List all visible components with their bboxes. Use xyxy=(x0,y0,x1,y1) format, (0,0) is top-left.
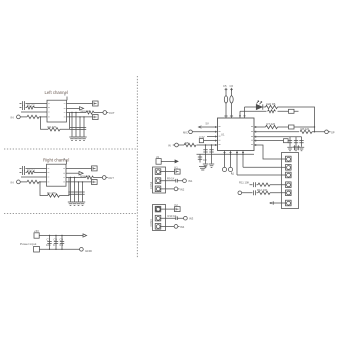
svg-text:R9 1K: R9 1K xyxy=(167,177,175,181)
svg-text:5V: 5V xyxy=(206,122,209,126)
svg-text:3.3V: 3.3V xyxy=(199,135,205,139)
svg-text:OUT: OUT xyxy=(109,111,115,115)
svg-text:R2 47K: R2 47K xyxy=(48,125,57,129)
svg-text:J3: J3 xyxy=(156,155,159,159)
svg-text:Power input: Power input xyxy=(20,242,36,246)
svg-text:1: 1 xyxy=(233,172,235,176)
svg-text:IN2: IN2 xyxy=(180,187,185,191)
svg-text:R1 C2: R1 C2 xyxy=(27,103,35,107)
svg-text:R11 10K: R11 10K xyxy=(239,180,249,184)
svg-text:IN: IN xyxy=(168,144,171,148)
svg-text:LED R6: LED R6 xyxy=(266,102,276,106)
svg-text:IN: IN xyxy=(11,180,14,184)
svg-text:CON3: CON3 xyxy=(149,181,153,189)
svg-text:IN4: IN4 xyxy=(180,225,185,229)
svg-text:+5V: +5V xyxy=(34,229,39,233)
svg-text:10u: 10u xyxy=(46,243,51,247)
svg-text:R8 220: R8 220 xyxy=(301,127,310,131)
svg-text:C3: C3 xyxy=(203,158,207,162)
svg-text:MIC: MIC xyxy=(183,130,188,134)
svg-text:C8: C8 xyxy=(54,238,58,242)
svg-text:C7: C7 xyxy=(47,238,51,242)
svg-text:SP: SP xyxy=(331,131,335,135)
svg-text:IN3: IN3 xyxy=(189,217,194,221)
svg-text:0.1: 0.1 xyxy=(60,243,64,247)
svg-text:Right channel: Right channel xyxy=(43,157,69,162)
svg-text:GND: GND xyxy=(85,249,93,253)
svg-text:R5: R5 xyxy=(185,141,189,145)
svg-text:R7 220: R7 220 xyxy=(267,122,276,126)
svg-text:C9: C9 xyxy=(60,238,64,242)
svg-text:IN: IN xyxy=(11,115,14,119)
svg-text:Ground: Ground xyxy=(80,174,89,178)
svg-text:R3 C4: R3 C4 xyxy=(27,168,35,172)
svg-text:0.1: 0.1 xyxy=(53,243,57,247)
svg-text:R12 10K: R12 10K xyxy=(257,188,268,192)
svg-text:CON3: CON3 xyxy=(149,219,153,227)
svg-text:Ground: Ground xyxy=(81,109,90,113)
svg-text:OUT: OUT xyxy=(108,176,114,180)
svg-text:C5: C5 xyxy=(223,84,227,88)
svg-text:IN1: IN1 xyxy=(188,179,193,183)
svg-text:K1: K1 xyxy=(175,165,179,169)
svg-text:K2: K2 xyxy=(175,203,179,207)
svg-text:R10 1K: R10 1K xyxy=(168,214,177,218)
svg-text:C6: C6 xyxy=(230,84,234,88)
svg-text:U1: U1 xyxy=(221,133,225,137)
svg-text:R4 47K: R4 47K xyxy=(47,191,56,195)
